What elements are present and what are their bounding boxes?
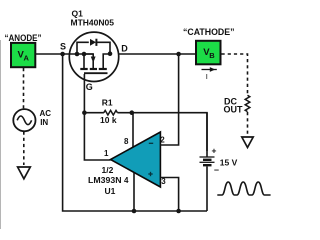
hollow arrowhead down (right) — [242, 137, 253, 148]
pin 2 wire to drain — [160, 54, 178, 145]
dashed wire AC source to arrow — [23, 132, 25, 166]
Q1 body diode — [90, 39, 96, 46]
wire VA to MOSFET source segment — [35, 53, 93, 55]
svg-text:–: – — [214, 165, 219, 175]
Q1 channel foot (body) — [90, 68, 97, 70]
svg-text:10 k: 10 k — [100, 115, 117, 125]
svg-text:G: G — [86, 82, 93, 92]
svg-text:2: 2 — [160, 136, 165, 145]
bottom rail junction dot (pin3) — [176, 209, 181, 214]
bottom rail junction dot (pin4) — [132, 209, 137, 214]
transistor Q1 circle — [69, 32, 118, 81]
svg-text:LM393N: LM393N — [88, 175, 122, 185]
Q1 channel foot (source) — [80, 68, 87, 70]
battery plates — [200, 156, 215, 158]
svg-text:D: D — [121, 43, 128, 53]
svg-text:B: B — [209, 51, 215, 60]
Q1 source contact stub — [83, 54, 85, 68]
node S junction dot — [60, 52, 65, 57]
svg-text:“ANODE”: “ANODE” — [5, 33, 42, 43]
node dot C (drain leg) — [108, 51, 113, 56]
anode terminal box VA — [11, 43, 35, 67]
svg-text:+: + — [212, 146, 217, 156]
Q1 body-diode loop right leg — [97, 42, 110, 54]
AC sine symbol — [17, 116, 31, 125]
svg-text:I: I — [206, 72, 208, 81]
dashed wire VB to DC OUT — [222, 54, 248, 96]
Q1 channel foot (drain) — [99, 68, 107, 70]
hollow arrowhead down (left) — [18, 167, 31, 179]
battery 15V top wire — [206, 113, 208, 157]
node dot A (loop left leg) — [75, 52, 80, 57]
gate wire G down to R1 node and comparator output — [84, 74, 110, 160]
svg-text:4: 4 — [124, 176, 129, 185]
plus symbol pin3 — [148, 172, 152, 176]
Q1 drain stub — [103, 54, 110, 68]
R1 right lead to battery — [117, 113, 207, 151]
node dot B (source stub) — [82, 52, 87, 57]
node dot drain/pin2 — [176, 52, 181, 57]
svg-text:1: 1 — [104, 149, 109, 158]
cathode terminal box VB — [196, 41, 221, 65]
svg-text:R1: R1 — [102, 98, 113, 108]
Q1 body stub with arrow — [84, 54, 93, 57]
svg-text:“CATHODE”: “CATHODE” — [183, 27, 235, 37]
svg-text:3: 3 — [161, 177, 166, 186]
svg-text:1/2: 1/2 — [102, 165, 114, 175]
resistor R1 zigzag — [104, 110, 118, 115]
svg-text:A: A — [24, 54, 30, 63]
current arrow I — [202, 69, 217, 71]
svg-text:15 V: 15 V — [220, 158, 238, 168]
pin 3 wire to ground rail — [160, 178, 178, 212]
DC OUT load squiggle — [245, 95, 250, 111]
wire drain to cathode box — [119, 53, 196, 55]
left rail wire (S down to bottom rail) — [63, 54, 207, 211]
svg-text:U1: U1 — [105, 186, 116, 196]
svg-text:OUT: OUT — [224, 105, 244, 115]
svg-text:8: 8 — [124, 137, 129, 146]
resistor R1 leads — [84, 112, 104, 114]
svg-text:S: S — [60, 42, 66, 52]
svg-text:MTH40N05: MTH40N05 — [71, 18, 115, 28]
AC source circle — [13, 109, 35, 131]
dashed wire squiggle to arrow — [247, 112, 249, 135]
Q1 body-diode loop left leg — [77, 42, 89, 54]
pin 8 wire — [132, 113, 134, 147]
svg-text:IN: IN — [40, 118, 48, 127]
minus symbol pin2 — [149, 142, 153, 144]
Q1 gate bar — [84, 72, 108, 74]
dashed wire VA box to AC source — [23, 68, 25, 109]
node dot R1/pin8 — [130, 110, 135, 115]
scan edge artifact — [0, 40, 2, 229]
battery bottom wire — [206, 167, 208, 212]
pin 4 wire to ground rail — [133, 173, 135, 212]
op-amp U1 comparator triangle — [111, 132, 161, 187]
rectified sine waveform — [217, 182, 270, 195]
node dot gate/R1 — [82, 110, 87, 115]
